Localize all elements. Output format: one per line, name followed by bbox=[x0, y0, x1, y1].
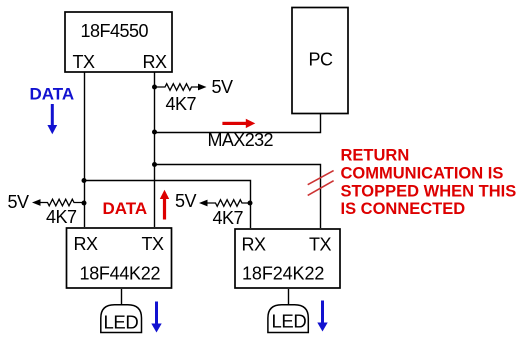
junction TX/DATA wire bbox=[82, 178, 87, 183]
arrowhead R3 to 5V bbox=[199, 200, 208, 207]
box U3 18F24K22 bbox=[235, 229, 340, 288]
arrowhead R1 to 5V bbox=[198, 84, 207, 91]
box U2 18F44K22 bbox=[67, 228, 172, 288]
svg-text:PC: PC bbox=[309, 50, 334, 70]
wire U1 TX down to U2 RX bbox=[84, 73, 86, 228]
arrow blue down (LED D1) bbox=[151, 302, 161, 333]
junction RX/R1 bbox=[152, 85, 157, 90]
svg-text:LED: LED bbox=[272, 311, 307, 332]
wire U3 to LED2 bbox=[288, 289, 290, 305]
svg-text:LED: LED bbox=[104, 312, 139, 333]
svg-text:MAX232: MAX232 bbox=[208, 130, 274, 150]
arrow red right (MAX232 direction) bbox=[222, 119, 255, 128]
wire DATA line U1 TX to U3 RX bbox=[85, 181, 251, 229]
wire RX line to U3 TX bbox=[155, 165, 321, 229]
junction TX/R2 bbox=[82, 201, 87, 206]
wire U2 to LED1 bbox=[121, 289, 123, 305]
svg-text:TX: TX bbox=[309, 235, 331, 255]
resistor R1 4K7 pullup on U1 RX bbox=[155, 84, 200, 91]
svg-text:RX: RX bbox=[242, 235, 266, 255]
junction U3RX/R3 bbox=[248, 201, 253, 206]
resistor R2 4K7 pullup on U2 RX bbox=[41, 199, 85, 206]
svg-text:5V: 5V bbox=[8, 192, 30, 212]
svg-text:5V: 5V bbox=[212, 77, 234, 97]
svg-text:5V: 5V bbox=[175, 191, 197, 211]
svg-text:IS CONNECTED: IS CONNECTED bbox=[341, 200, 466, 218]
box PC bbox=[292, 8, 348, 114]
svg-text:DATA: DATA bbox=[30, 85, 75, 104]
resistor R3 4K7 pullup on U3 RX bbox=[208, 200, 251, 207]
junction RX/U3TX wire bbox=[152, 162, 157, 167]
svg-text:18F44K22: 18F44K22 bbox=[80, 264, 161, 284]
box U1 18F4550 bbox=[65, 12, 172, 72]
svg-text:DATA: DATA bbox=[103, 199, 148, 218]
svg-text:RX: RX bbox=[74, 234, 98, 254]
svg-text:4K7: 4K7 bbox=[46, 207, 77, 227]
red break slashes on U3 TX wire bbox=[308, 171, 334, 196]
svg-text:COMMUNICATION IS: COMMUNICATION IS bbox=[341, 165, 504, 183]
svg-text:18F4550: 18F4550 bbox=[81, 21, 149, 41]
wire U1 RX down to U2 TX bbox=[154, 73, 156, 228]
LED D2 (right) bbox=[268, 305, 308, 333]
svg-text:TX: TX bbox=[142, 234, 164, 254]
wire RX line to PC (MAX232 link) bbox=[155, 114, 321, 133]
LED D1 (left) bbox=[101, 305, 142, 333]
svg-text:4K7: 4K7 bbox=[213, 208, 244, 228]
arrow blue down (under DATA) bbox=[47, 104, 57, 134]
svg-text:18F24K22: 18F24K22 bbox=[242, 264, 324, 284]
arrow blue down (LED D2) bbox=[317, 301, 327, 332]
note text RETURN COMMUNICATION (red) bbox=[341, 147, 517, 219]
svg-text:RETURN: RETURN bbox=[341, 147, 410, 165]
junction RX/PC wire bbox=[152, 130, 157, 135]
svg-text:TX: TX bbox=[73, 52, 95, 72]
arrow red up (U2 TX return data) bbox=[160, 190, 169, 220]
svg-text:4K7: 4K7 bbox=[166, 94, 197, 114]
svg-text:STOPPED WHEN THIS: STOPPED WHEN THIS bbox=[341, 182, 517, 200]
svg-text:RX: RX bbox=[143, 52, 167, 72]
arrowhead R2 to 5V bbox=[32, 199, 41, 206]
